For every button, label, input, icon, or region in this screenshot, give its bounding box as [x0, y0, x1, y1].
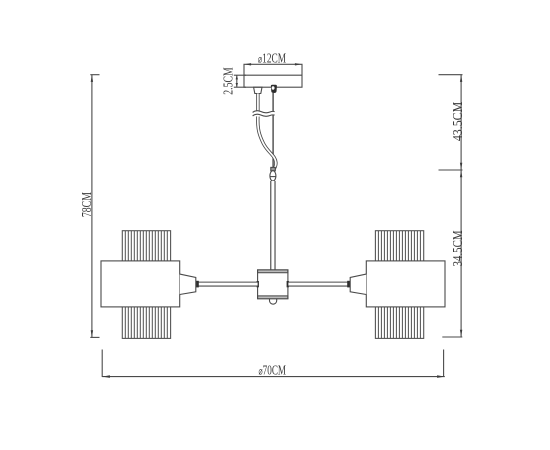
- stem tube (double line): [270, 181, 275, 270]
- suspension rod: [272, 93, 274, 168]
- left arm (double line): [198, 282, 258, 287]
- svg-text:34.5CM: 34.5CM: [450, 230, 466, 266]
- ball joint: [270, 171, 277, 181]
- left shade middle band: [101, 261, 180, 307]
- right dimension line 43.5CM: [460, 75, 462, 170]
- break symbol (wavy lines): [253, 111, 275, 117]
- hub right ferrule: [287, 281, 289, 287]
- svg-text:43.5CM: 43.5CM: [449, 101, 465, 141]
- left lamp socket: [180, 274, 196, 294]
- svg-text:⌀12CM: ⌀12CM: [258, 50, 287, 66]
- right arm nut: [347, 281, 350, 288]
- cable upper section (double line): [256, 94, 259, 111]
- left dimension 78CM extension ticks: [90, 75, 99, 338]
- dimension line 2.5CM: [236, 75, 238, 87]
- hub top knurled band: [258, 270, 288, 273]
- left shade ribbed cylinder: [122, 231, 170, 339]
- hanger bolt at rod top: [271, 85, 277, 93]
- right lamp socket: [350, 274, 366, 294]
- svg-text:⌀70CM: ⌀70CM: [259, 361, 287, 378]
- cable gland under canopy: [254, 87, 262, 93]
- hub left ferrule: [257, 281, 259, 287]
- bottom dimension line D70CM: [102, 375, 445, 378]
- canopy ceiling plate: [244, 64, 302, 87]
- left dimension line 78CM: [91, 75, 93, 338]
- central hub body: [258, 270, 288, 299]
- svg-text:2.5CM: 2.5CM: [220, 67, 236, 95]
- svg-text:78CM: 78CM: [78, 192, 94, 217]
- right dimension line 34.5CM: [460, 170, 462, 337]
- hub bottom knurled band: [258, 296, 288, 299]
- right dimension extension ticks: [439, 75, 463, 337]
- dome finial under hub: [270, 299, 277, 304]
- right shade middle band: [366, 261, 445, 307]
- dimension line D12CM (top edge of canopy): [244, 63, 301, 65]
- right arm (double line): [288, 282, 348, 287]
- left arm nut: [195, 281, 198, 288]
- bottom dimension extension lines: [102, 350, 443, 378]
- cable lower curved section (double line): [258, 117, 276, 171]
- ball joint collar: [271, 167, 276, 170]
- extension lines for 2.5CM: [234, 75, 246, 87]
- right shade ribbed cylinder: [375, 231, 423, 339]
